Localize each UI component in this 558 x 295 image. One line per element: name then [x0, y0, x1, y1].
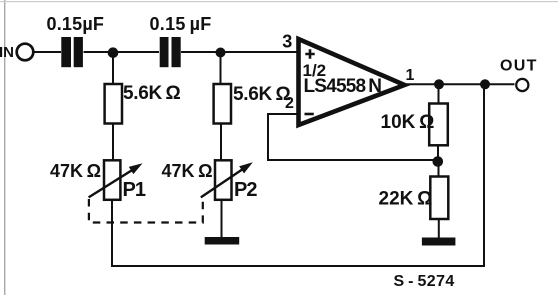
potentiometer P1 47K [89, 160, 143, 200]
svg-text:0.15 µF: 0.15 µF [150, 14, 212, 34]
terminal OUT [516, 79, 528, 91]
wire P2 to ground [221, 200, 223, 239]
wire right rail up to OUT node [483, 84, 485, 267]
wire 22K to ground [438, 219, 440, 239]
wire 10K to node C [437, 145, 439, 161]
op-amp U1 triangle [299, 39, 405, 125]
svg-text:0.15µF: 0.15µF [47, 14, 105, 34]
resistor R3 10K [429, 104, 448, 146]
svg-text:S - 5274: S - 5274 [394, 273, 455, 290]
svg-text:OUT: OUT [500, 58, 538, 75]
node B junction [216, 48, 226, 58]
svg-text:22K Ω: 22K Ω [379, 189, 433, 210]
svg-text:1: 1 [406, 67, 415, 84]
svg-text:5.6K Ω: 5.6K Ω [233, 84, 290, 105]
svg-text:2: 2 [285, 95, 294, 112]
wire node C to 22K [438, 160, 440, 177]
svg-text:10K Ω: 10K Ω [381, 112, 435, 133]
resistor R2 5.6K [214, 84, 231, 124]
wire P1 down to bottom rail [111, 200, 113, 267]
wire OUT node down to 10K [438, 84, 440, 104]
page frame edge left [4, 0, 5, 295]
potentiometer P2 47K [201, 160, 253, 200]
svg-text:3: 3 [282, 32, 292, 52]
node C junction [433, 156, 444, 167]
wire R1 to P1 [112, 123, 114, 161]
wire node A down to R1 [112, 52, 114, 85]
resistor R1 5.6K [105, 84, 122, 124]
svg-text:LS4558 N: LS4558 N [304, 76, 382, 97]
node out junction 2 [480, 79, 490, 89]
wire C2 to op-amp pin 3 [181, 51, 299, 53]
node out junction 1 [434, 79, 444, 89]
ganged pot dashed coupling P1-P2 [89, 199, 203, 223]
op-amp minus sign [305, 113, 314, 116]
op-amp plus sign [305, 49, 314, 58]
svg-text:47K Ω: 47K Ω [162, 161, 213, 181]
page frame edge top [0, 1, 558, 2]
wire feedback vertical [267, 114, 269, 161]
wire bottom rail [111, 265, 485, 267]
wire op-amp output to OUT [403, 83, 515, 85]
terminal IN [17, 44, 34, 61]
wire feedback node C to left [268, 159, 437, 161]
wire R2 to P2 [220, 123, 222, 161]
capacitor C1 [61, 37, 83, 67]
ground under P2 [205, 237, 240, 245]
wire IN to C1 [34, 51, 62, 53]
svg-text:5.6K Ω: 5.6K Ω [123, 83, 180, 104]
svg-text:P2: P2 [234, 179, 257, 201]
resistor R4 22K [430, 177, 448, 220]
capacitor C2 [160, 37, 181, 67]
svg-text:IN: IN [0, 44, 14, 61]
svg-text:47K Ω: 47K Ω [50, 161, 101, 181]
wire feedback to op-amp pin 2 [267, 113, 300, 115]
node A junction [108, 47, 119, 58]
wire node B down to R2 [220, 52, 222, 85]
wire C1 to C2 through node A [84, 51, 160, 53]
ground under R4 [422, 238, 456, 246]
svg-text:P1: P1 [123, 179, 146, 201]
